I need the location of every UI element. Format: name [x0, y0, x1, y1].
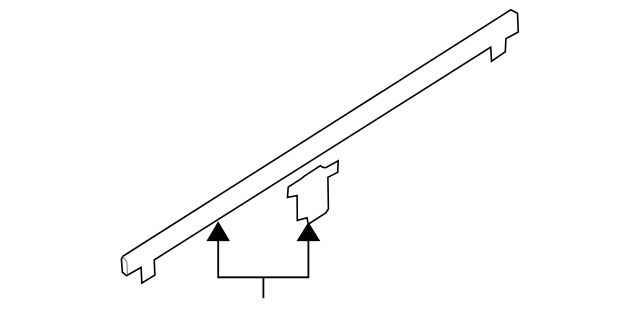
arrow right — [297, 223, 319, 241]
leader bracket — [218, 241, 308, 278]
left end face inner edges — [123, 256, 128, 274]
arrow left — [207, 222, 229, 240]
leader stem — [262, 277, 264, 298]
clip — [288, 161, 339, 224]
molding bar outline — [121, 10, 518, 283]
